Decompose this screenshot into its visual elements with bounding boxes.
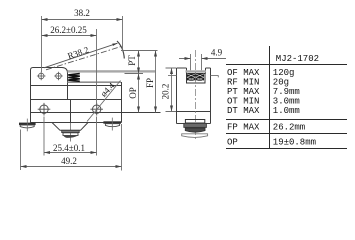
dimension 4.9: [179, 58, 226, 60]
table rule above OP: [226, 133, 347, 135]
side view: mounting reference line y=112: [31, 112, 161, 114]
front view: terminal washer 2: [185, 128, 205, 132]
screw terminal center line: [70, 123, 72, 142]
right terminal: [103, 118, 121, 131]
front view: internal line: [177, 111, 211, 113]
svg-text:OF MAX: OF MAX: [227, 68, 260, 78]
dimension PT: [138, 51, 140, 74]
front view: body outline: [177, 68, 211, 124]
front view: rubber boot hatch: [187, 74, 204, 81]
front view: terminal washer 1: [184, 123, 207, 127]
dimension FP: [155, 51, 157, 113]
svg-text:FP MAX: FP MAX: [227, 123, 260, 133]
svg-text:38.2: 38.2: [74, 8, 90, 18]
small hole 2: [54, 72, 63, 81]
svg-text:3.0mm: 3.0mm: [273, 97, 300, 107]
svg-text:OP: OP: [227, 137, 238, 147]
dimension 26.2±0.25: [42, 35, 97, 37]
bottom trapezoid recess: [52, 123, 88, 131]
lever radius leader R38.2: [44, 43, 118, 68]
svg-text:25.4±0.1: 25.4±0.1: [53, 143, 85, 153]
svg-text:OP: OP: [128, 87, 138, 99]
leader arrowhead: [112, 43, 117, 46]
dimension 25.4±0.1 extension lines: [44, 117, 97, 156]
side view: internal case line A: [31, 85, 122, 87]
front view: center line: [194, 50, 196, 141]
svg-text:120g: 120g: [273, 68, 295, 78]
front view: terminal screw head: [185, 120, 204, 124]
side view: case parting vertical line: [70, 100, 72, 123]
dimension OP: [138, 74, 140, 113]
svg-text:49.2: 49.2: [61, 156, 77, 166]
front view: side ledge line: [168, 75, 218, 77]
left terminal lug: [19, 119, 36, 132]
dimension 4.9 extension lines: [191, 54, 202, 70]
svg-text:RF MIN: RF MIN: [227, 78, 259, 88]
svg-text:FP: FP: [145, 78, 155, 88]
dimension 38.2: [42, 19, 123, 21]
side view: switch body left edge: [30, 70, 32, 123]
center screw terminal: [62, 130, 79, 138]
svg-text:MJ2-1702: MJ2-1702: [276, 54, 319, 64]
front view: lever cross-section (gray): [186, 70, 207, 72]
svg-text:20.2: 20.2: [160, 84, 170, 100]
svg-text:7.9mm: 7.9mm: [273, 87, 300, 97]
svg-text:4.9: 4.9: [211, 48, 223, 58]
table bottom rule: [226, 148, 347, 150]
side view: internal case line B: [31, 99, 122, 101]
svg-text:DT MAX: DT MAX: [227, 106, 260, 116]
svg-text:OT MIN: OT MIN: [227, 97, 259, 107]
svg-text:1.0mm: 1.0mm: [273, 106, 300, 116]
dimension 38.2 extension lines: [42, 16, 123, 72]
table rule above FP: [226, 119, 347, 121]
dimension 49.2: [21, 166, 122, 168]
dimension 25.4±0.1: [44, 152, 97, 154]
dimension 49.2 extension lines: [21, 124, 122, 171]
svg-text:20g: 20g: [273, 78, 289, 88]
dimension 20.2 extension lines: [166, 68, 177, 112]
free position reference line: [121, 50, 158, 52]
svg-text:26.2±0.25: 26.2±0.25: [50, 25, 87, 35]
table divider: [269, 46, 271, 149]
table rule under header: [226, 64, 347, 66]
hole diameter leader: [87, 81, 121, 122]
lever free position (phantom): [46, 46, 122, 69]
side view: body right edge: [121, 82, 123, 123]
lever pressed position (gray): [68, 70, 156, 72]
front view: terminal base plate: [182, 134, 208, 138]
mounting hole 2: [90, 103, 103, 116]
svg-text:19±0.8mm: 19±0.8mm: [273, 137, 316, 147]
lever tip swing arc: [117, 41, 124, 59]
side view: plunger seat line: [68, 81, 122, 83]
dimension 26.2±0.25 extension line right: [96, 29, 98, 103]
svg-text:PT MAX: PT MAX: [227, 87, 260, 97]
svg-text:26.2mm: 26.2mm: [273, 123, 305, 133]
svg-text:PT: PT: [127, 55, 137, 66]
dimension 20.2: [171, 68, 173, 112]
side view: upper step top with rounded corners: [31, 68, 68, 100]
front view: plunger well: [187, 74, 206, 84]
operating position reference line: [125, 73, 144, 75]
mounting hole 1: [38, 103, 51, 116]
plunger spring zigzag: [68, 74, 80, 82]
small hole 1: [37, 72, 46, 81]
side view: body bottom edge: [31, 122, 122, 124]
